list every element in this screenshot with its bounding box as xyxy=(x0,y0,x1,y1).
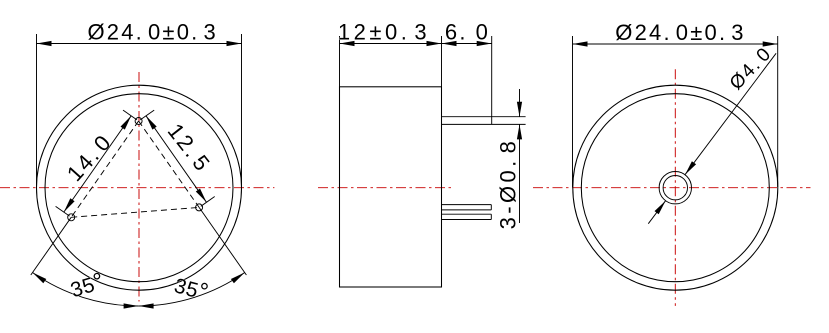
side view centerline xyxy=(318,187,451,189)
pitch line top to lower-left (dashed) xyxy=(71,121,138,217)
dimension pin length 6.0 xyxy=(442,20,492,125)
svg-text:12.5: 12.5 xyxy=(163,119,216,177)
front view outer circle xyxy=(37,85,242,290)
dimension 14.0 xyxy=(56,110,137,216)
center hole inner circle xyxy=(663,176,687,200)
front view inner circle xyxy=(45,94,233,282)
rear view vertical centerline xyxy=(674,69,676,306)
rear view inner circle xyxy=(581,94,769,282)
lower pin 2 xyxy=(442,214,492,219)
dimension rear diameter 24.0 xyxy=(573,20,778,187)
front view horizontal centerline xyxy=(0,187,274,189)
angle dimension 35deg left xyxy=(33,267,139,308)
rear view horizontal centerline xyxy=(533,187,811,189)
pitch line top to lower-right (dashed) xyxy=(139,121,200,207)
svg-text:35°: 35° xyxy=(67,267,108,303)
svg-text:6.0: 6.0 xyxy=(445,20,490,45)
front view vertical centerline xyxy=(138,72,140,302)
svg-text:14.0: 14.0 xyxy=(62,129,117,186)
rear view outer circle xyxy=(573,85,778,290)
lower pin 1 xyxy=(442,205,492,210)
angle dimension 35deg right xyxy=(139,271,245,308)
dimension front diameter 24.0 xyxy=(37,20,242,188)
svg-text:Ø24.0±0.3: Ø24.0±0.3 xyxy=(87,20,217,45)
svg-text:12±0.3: 12±0.3 xyxy=(338,20,430,45)
svg-text:Ø24.0±0.3: Ø24.0±0.3 xyxy=(615,20,745,45)
dimension body width 12 xyxy=(338,20,442,87)
dimension 12.5 xyxy=(140,110,216,206)
pin hole lower-left xyxy=(68,214,75,221)
pin hole top xyxy=(135,118,142,125)
pitch line lower-left to lower-right (dashed) xyxy=(71,207,199,217)
35deg construction line right xyxy=(199,207,246,275)
dimension pin diameter 3-O0.8 xyxy=(496,89,523,229)
35deg construction line left xyxy=(31,217,71,275)
upper pin xyxy=(442,117,526,125)
pin hole lower-right xyxy=(196,204,203,211)
side view body xyxy=(340,87,442,287)
svg-text:35°: 35° xyxy=(171,271,211,306)
leader dimension hole 4.0 xyxy=(648,43,776,224)
svg-text:3-Ø0.8: 3-Ø0.8 xyxy=(496,138,521,230)
center hole outer circle xyxy=(659,172,691,204)
